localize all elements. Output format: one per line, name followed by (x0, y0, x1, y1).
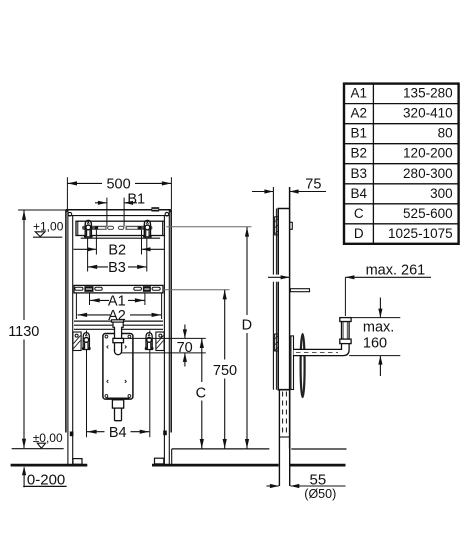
level mark +1,00 (33, 232, 62, 237)
left post (66, 210, 73, 465)
extension line 750 (163, 289, 230, 291)
dim 750 (223, 290, 227, 449)
lower stud left (82, 333, 91, 350)
foot joint left (70, 432, 74, 437)
dim D (245, 227, 249, 449)
svg-text:300: 300 (430, 186, 453, 201)
side tab (290, 222, 293, 229)
drain pipe front (115, 326, 122, 355)
ground line thick (11, 464, 346, 467)
foot plate right (155, 458, 164, 464)
washbasin rail (74, 285, 163, 293)
dim B4 (87, 331, 150, 438)
svg-text:0-200: 0-200 (27, 471, 65, 488)
dim B3 (88, 238, 147, 271)
dimension table (344, 84, 459, 244)
trap pipe inner walls (342, 322, 344, 340)
svg-text:A1: A1 (350, 86, 367, 101)
svg-text:D: D (242, 318, 252, 334)
floor line under dims (172, 449, 270, 465)
drain coupling nut (113, 338, 124, 342)
svg-text:D: D (354, 226, 364, 241)
svg-text:B1: B1 (127, 191, 145, 207)
svg-text:70: 70 (177, 340, 193, 356)
trap coupling (340, 339, 351, 344)
svg-text:75: 75 (305, 176, 321, 192)
svg-text:320-410: 320-410 (403, 106, 453, 121)
svg-text:55: 55 (310, 471, 327, 488)
supply stub (290, 289, 309, 292)
svg-text:max. 261: max. 261 (366, 262, 426, 278)
mounting plate side (291, 336, 294, 390)
cover disc (301, 334, 305, 397)
dim A2 (76, 293, 161, 319)
upper stud right (143, 220, 152, 237)
foot joint right (163, 431, 167, 436)
svg-text:(Ø50): (Ø50) (304, 487, 336, 501)
side drain pipe down (279, 390, 289, 486)
svg-text:±0,00: ±0,00 (33, 431, 63, 445)
svg-text:A2: A2 (350, 106, 367, 121)
upper stud left (84, 220, 93, 237)
svg-text:B3: B3 (350, 166, 367, 181)
dim 55 (267, 484, 346, 488)
dim A1 (90, 293, 145, 305)
svg-text:500: 500 (106, 176, 130, 192)
mounting plate (103, 334, 133, 400)
corner chamfer right (169, 210, 171, 213)
svg-text:B2: B2 (108, 242, 126, 258)
annotation 0-200 (22, 466, 67, 487)
dim B2 (74, 230, 165, 255)
drywall bracket upper (275, 217, 279, 235)
svg-text:B4: B4 (109, 425, 127, 441)
lower crossbar (74, 321, 163, 329)
outlet pipe (115, 408, 122, 421)
wall bracket left (73, 332, 81, 351)
dim C (200, 338, 204, 448)
trap pipe (294, 322, 350, 356)
dim max261 (268, 275, 431, 316)
side floor line (291, 448, 346, 450)
trap flange (340, 318, 351, 322)
corner hole right (165, 212, 169, 216)
svg-text:+1,00: +1,00 (33, 220, 64, 234)
svg-text:1025-1075: 1025-1075 (388, 226, 453, 241)
faucet rail (76, 221, 164, 238)
svg-text:B4: B4 (350, 186, 367, 201)
frame outline front view (66, 210, 171, 216)
corner chamfer left (66, 210, 68, 213)
dim 1130 (18, 210, 67, 448)
svg-text:B2: B2 (350, 146, 367, 161)
side panel (278, 209, 289, 390)
svg-text:280-300: 280-300 (403, 166, 453, 181)
table text (350, 86, 452, 241)
slotted bar (82, 225, 152, 230)
svg-text:80: 80 (438, 126, 453, 141)
svg-text:C: C (354, 206, 364, 221)
level mark 0,00 (12, 443, 64, 449)
label block top right (151, 207, 159, 211)
foot plate left (73, 459, 82, 465)
drywall bracket lower (275, 334, 279, 351)
dim B1 (95, 198, 137, 227)
outlet socket (112, 400, 123, 408)
svg-text:max.: max. (363, 320, 394, 336)
lower stud right (145, 333, 154, 350)
svg-text:B1: B1 (350, 126, 367, 141)
side view front line (273, 187, 276, 390)
svg-text:525-600: 525-600 (403, 206, 453, 221)
svg-text:1130: 1130 (8, 324, 39, 340)
svg-text:C: C (196, 385, 206, 401)
dim 500 (67, 177, 171, 209)
svg-text:160: 160 (363, 336, 387, 352)
side view wall line (289, 187, 291, 449)
right post (164, 210, 171, 465)
drain flange (112, 320, 124, 328)
svg-text:B3: B3 (108, 260, 126, 276)
dim 75 (252, 189, 326, 193)
svg-text:120-200: 120-200 (403, 146, 453, 161)
svg-text:135-280: 135-280 (403, 86, 453, 101)
dim max160 (349, 298, 400, 377)
corner hole left (68, 212, 72, 216)
svg-text:750: 750 (213, 363, 237, 379)
extension line D top (166, 226, 251, 228)
dim 70 (121, 325, 206, 367)
dim max160 text (363, 320, 394, 352)
wall bracket right (156, 332, 164, 351)
svg-text:A2: A2 (108, 308, 126, 324)
